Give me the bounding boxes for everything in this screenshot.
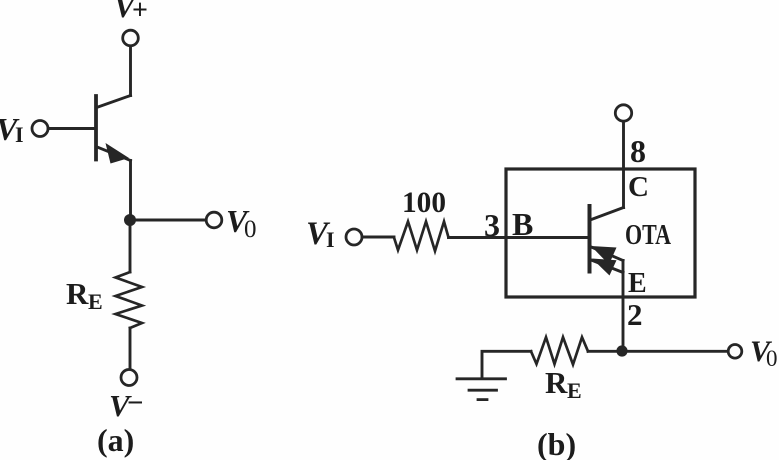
wire resistor RE to ground corner [482, 351, 531, 378]
wire collector to V+ terminal [129, 46, 132, 95]
svg-text:OTA: OTA [625, 219, 671, 251]
terminal V_I (a) [32, 121, 48, 137]
transistor OTA emitter arrow 2 [592, 259, 617, 276]
transistor OTA emitter arrow 1 [591, 246, 617, 265]
svg-text:(b): (b) [537, 426, 576, 460]
ground bar 1 [457, 377, 506, 380]
resistor RE (b) [531, 337, 588, 364]
wire collector to top terminal [622, 122, 625, 208]
wire base inside box [506, 236, 589, 239]
svg-text:0: 0 [766, 346, 778, 371]
resistor 100 [394, 222, 449, 252]
svg-text:I: I [326, 227, 335, 252]
OTA box U1 [506, 169, 695, 297]
wire node to resistor RE (b) [588, 350, 622, 353]
svg-text:R: R [545, 365, 568, 400]
terminal V0 (a) [206, 212, 222, 228]
wire node to V0 terminal (a) [130, 219, 206, 222]
svg-text:+: + [132, 0, 148, 26]
terminal V- [121, 370, 137, 386]
terminal top (b) [615, 105, 631, 121]
node A output junction [124, 214, 136, 226]
svg-text:0: 0 [244, 216, 257, 243]
svg-text:3: 3 [484, 207, 500, 243]
terminal V_I (b) [346, 229, 362, 245]
svg-text:C: C [628, 171, 649, 203]
svg-text:I: I [15, 122, 24, 147]
svg-text:R: R [66, 276, 89, 311]
resistor RE (a) [116, 272, 143, 328]
ground bar 2 [469, 389, 497, 392]
wire emitter down to node (a) [129, 161, 132, 221]
node B output junction [616, 345, 627, 356]
svg-text:8: 8 [630, 133, 646, 169]
transistor Q1 collector lead [97, 96, 131, 108]
svg-text:100: 100 [402, 186, 446, 219]
ground bar 3 [478, 398, 487, 401]
transistor OTA emitter lead lower [590, 260, 623, 273]
terminal V+ [123, 30, 139, 46]
terminal V0 (b) [728, 345, 742, 359]
wire resistor to V- terminal [129, 328, 132, 369]
svg-text:E: E [628, 268, 647, 299]
wire emitter to node (b) [622, 261, 625, 352]
svg-text:−: − [127, 387, 144, 419]
transistor Q1 emitter arrow [106, 143, 130, 164]
wire base (a) [48, 127, 96, 130]
transistor Q1 emitter lead [97, 147, 131, 161]
svg-text:(a): (a) [97, 422, 134, 458]
transistor OTA emitter lead upper [590, 247, 623, 261]
wire node to resistor RE (a) [129, 220, 132, 272]
svg-text:2: 2 [627, 297, 643, 332]
svg-text:E: E [88, 289, 103, 314]
transistor OTA base bar [588, 206, 592, 272]
wire resistor 100 to box [449, 236, 507, 239]
wire terminal to resistor 100 [362, 236, 394, 239]
svg-text:E: E [567, 378, 582, 403]
wire node to V0 terminal (b) [622, 350, 728, 353]
transistor OTA collector lead [590, 208, 624, 221]
transistor Q1 base bar [94, 96, 98, 160]
